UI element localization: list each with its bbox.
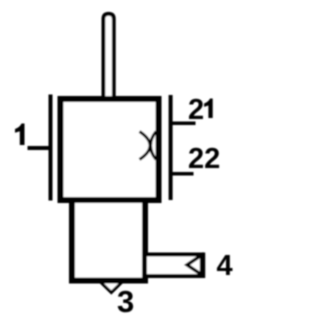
pin 1 lead wire (28, 146, 51, 150)
svg-text:2: 2 (188, 94, 204, 126)
momentary contact symbol right arc (151, 132, 157, 160)
lower body rectangle (72, 200, 145, 281)
pin 4 flag body (145, 255, 203, 277)
pin 3 triangle (101, 282, 123, 293)
pin 21 lead wire (169, 122, 196, 126)
svg-text:3: 3 (117, 284, 134, 319)
svg-text:22: 22 (188, 143, 220, 175)
pin 4 triangle (187, 255, 202, 274)
momentary contact symbol left arc (140, 132, 151, 160)
pin 1 label (15, 124, 25, 146)
pin 22 lead wire (169, 172, 194, 176)
svg-text:4: 4 (217, 250, 233, 282)
main switch body box (61, 99, 159, 200)
toggle lever (103, 14, 113, 100)
left terminal bar (49, 95, 53, 201)
right terminal bar (169, 95, 173, 200)
